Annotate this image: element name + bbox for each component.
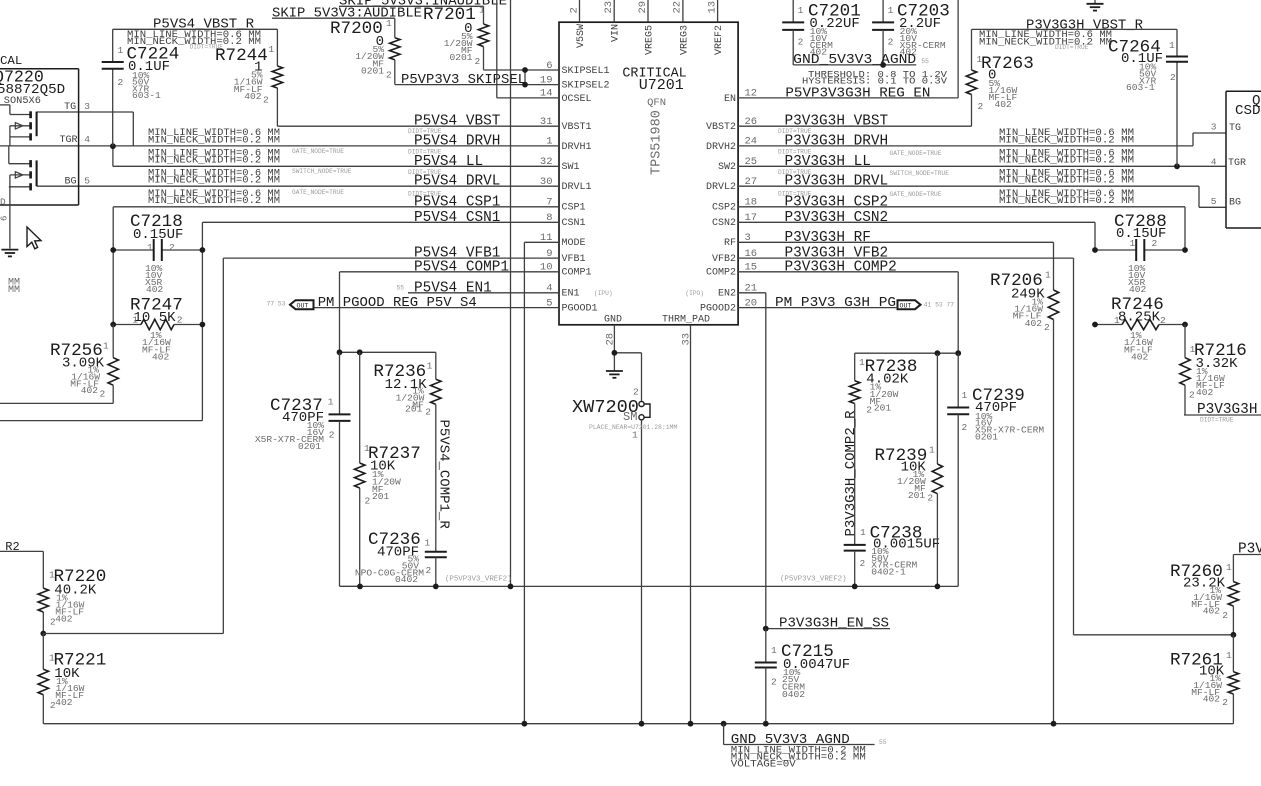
svg-text:P3V3G3H_RF: P3V3G3H_RF: [785, 230, 871, 246]
wire CSN1 branch down: [0, 250, 202, 421]
capacitor C7201: [782, 0, 861, 65]
svg-text:PGOOD2: PGOOD2: [700, 304, 736, 315]
svg-text:2: 2: [1222, 697, 1228, 708]
svg-text:GATE_NODE=TRUE: GATE_NODE=TRUE: [292, 148, 344, 155]
wire COMP2 block top: [855, 352, 959, 354]
svg-text:402: 402: [1131, 352, 1149, 363]
svg-text:402: 402: [152, 352, 170, 363]
Q7220 source pin 6 wire: [0, 205, 10, 249]
capacitor C7203: [872, 0, 950, 65]
didt attributes right: [778, 128, 812, 198]
junction R7246 left: [1092, 322, 1098, 328]
svg-text:1: 1: [49, 653, 55, 664]
CSD pin TG: [1211, 122, 1241, 135]
svg-text:VBST2: VBST2: [706, 122, 736, 133]
junction R7247 right: [200, 322, 206, 328]
svg-text:MIN_NECK_WIDTH=0.2 MM: MIN_NECK_WIDTH=0.2 MM: [999, 134, 1134, 145]
svg-text:55: 55: [879, 739, 887, 746]
svg-text:COMP1: COMP1: [562, 268, 592, 279]
junction skipsel2: [522, 82, 528, 88]
svg-text:PM P3V3 G3H PG: PM P3V3 G3H PG: [775, 295, 896, 311]
svg-text:201: 201: [908, 490, 926, 501]
svg-text:2: 2: [100, 389, 106, 400]
svg-text:2: 2: [888, 37, 894, 48]
svg-text:2: 2: [771, 677, 777, 688]
resistor R7236: [373, 352, 441, 417]
svg-text:2: 2: [329, 430, 335, 441]
svg-text:402: 402: [81, 385, 99, 396]
svg-text:1: 1: [269, 44, 275, 55]
svg-text:BG: BG: [64, 177, 76, 188]
wire CSP1 branch down: [112, 250, 114, 325]
capacitor C7224: [102, 45, 180, 101]
junction gnd28: [612, 350, 618, 356]
resistor R7247: [113, 296, 202, 363]
svg-text:402: 402: [244, 91, 262, 102]
svg-text:2: 2: [386, 69, 392, 80]
svg-text:22: 22: [672, 1, 684, 14]
svg-text:2: 2: [798, 37, 804, 48]
svg-text:SWITCH_NODE=TRUE: SWITCH_NODE=TRUE: [890, 170, 950, 177]
off-page flag OUT right: [898, 300, 955, 309]
svg-text:COMP2: COMP2: [706, 268, 736, 279]
svg-text:VREG5: VREG5: [644, 25, 655, 55]
svg-text:1: 1: [929, 444, 935, 455]
Q7220 pin BG: [64, 176, 90, 188]
wire P5VS4_COMP1: [340, 272, 560, 353]
svg-text:P3V3G3H_LL: P3V3G3H_LL: [785, 154, 871, 170]
wire SKIPSEL1: [484, 69, 560, 71]
svg-text:402: 402: [1203, 606, 1221, 617]
wire TG jog: [37, 112, 134, 146]
svg-text:1: 1: [147, 242, 153, 253]
resistor R7216: [1180, 325, 1247, 416]
gate node attributes right: [890, 150, 950, 198]
svg-text:P5VS4_COMP1: P5VS4_COMP1: [414, 259, 509, 275]
svg-text:P3V3G3H_CSN2: P3V3G3H_CSN2: [785, 210, 889, 226]
svg-text:2: 2: [365, 496, 371, 507]
svg-text:1: 1: [977, 54, 983, 65]
mouse cursor: [27, 227, 41, 249]
junction comp1 a: [337, 349, 343, 355]
svg-text:1: 1: [632, 430, 638, 441]
junction comp2 b: [955, 350, 961, 356]
svg-text:201: 201: [874, 403, 892, 414]
wire THRM_PAD: [690, 325, 692, 724]
junction bus 2: [639, 721, 645, 727]
svg-text:2: 2: [169, 242, 175, 253]
svg-text:MIN_NECK_WIDTH=0.2 MM: MIN_NECK_WIDTH=0.2 MM: [148, 155, 280, 166]
svg-text:SW2: SW2: [718, 162, 736, 173]
junction R7260 bottom: [1231, 632, 1237, 638]
svg-text:SWITCH_NODE=TRUE: SWITCH_NODE=TRUE: [292, 168, 352, 175]
svg-text:(IPO): (IPO): [685, 290, 704, 297]
svg-text:3: 3: [84, 101, 90, 112]
op-amp U7201 TPS51980 controller IC: [559, 22, 738, 325]
wire P5VS4_DRVL (BG): [37, 185, 559, 187]
wire P5VS4_VBST: [277, 125, 559, 127]
svg-text:OUT: OUT: [297, 302, 309, 309]
resistor R7263: [966, 54, 1033, 112]
svg-text:(IPU): (IPU): [594, 290, 613, 297]
svg-text:DRVH2: DRVH2: [706, 142, 736, 153]
svg-text:CSN1: CSN1: [562, 218, 586, 229]
net label GND_5V3V3_AGND top: [793, 52, 929, 68]
min width notes right rows: [999, 127, 1134, 206]
wire P3V3G3H_VBST: [738, 125, 972, 127]
svg-text:DRVL2: DRVL2: [706, 182, 736, 193]
svg-text:1: 1: [386, 18, 392, 29]
capacitor C7218: [113, 212, 202, 295]
svg-text:2: 2: [475, 56, 481, 67]
wire P3V3G3H_CSN2: [738, 222, 1095, 250]
junction bus 3: [688, 721, 694, 727]
svg-text:402: 402: [55, 697, 73, 708]
jumper XW7200: [572, 353, 677, 724]
svg-text:0402-1: 0402-1: [871, 566, 906, 577]
svg-text:EN1: EN1: [562, 289, 580, 300]
svg-text:TGR: TGR: [1228, 158, 1246, 169]
svg-text:1: 1: [1226, 562, 1232, 573]
svg-text:4: 4: [1211, 157, 1217, 168]
svg-text:402: 402: [1129, 284, 1147, 295]
svg-text:CSP2: CSP2: [712, 203, 736, 214]
net label SKIP_5V3V3:AUDIBLE: [272, 5, 422, 21]
Q7220 pin TG: [64, 101, 90, 113]
svg-text:SKIPSEL2: SKIPSEL2: [562, 81, 610, 92]
min width note vbst_r left: [127, 29, 261, 50]
svg-text:2: 2: [177, 315, 183, 326]
svg-text:55: 55: [397, 284, 405, 291]
svg-text:23: 23: [603, 1, 615, 14]
svg-text:CSN2: CSN2: [712, 218, 736, 229]
junction bottom 1: [357, 584, 363, 590]
resistor R7238: [850, 353, 918, 416]
svg-text:1: 1: [888, 5, 894, 16]
svg-text:DIDT=TRUE: DIDT=TRUE: [778, 128, 812, 135]
svg-text:GATE_NODE=TRUE: GATE_NODE=TRUE: [890, 150, 942, 157]
resistor R7246: [1095, 295, 1185, 363]
svg-text:1: 1: [118, 45, 124, 56]
wire P5VS4_EN1: [408, 292, 559, 294]
junction R7220 bottom: [40, 631, 46, 637]
svg-text:1: 1: [1114, 315, 1120, 326]
svg-text:RF: RF: [724, 238, 736, 249]
wire PM_PGOOD_REG_P5V_S4: [314, 307, 560, 309]
net label SKIP_5V3V3:INAUDIBLE: [339, 0, 507, 9]
svg-text:1: 1: [798, 5, 804, 16]
svg-text:DIDT=TRUE: DIDT=TRUE: [1200, 417, 1234, 424]
svg-text:0201: 0201: [449, 52, 472, 63]
svg-text:0201: 0201: [298, 441, 321, 452]
wire skipsel tie: [524, 70, 526, 85]
wire P5VS4_CSP1: [113, 207, 559, 250]
svg-text:8.25K: 8.25K: [1118, 310, 1161, 326]
svg-text:0201: 0201: [361, 65, 384, 76]
svg-text:2: 2: [866, 405, 872, 416]
capacitor C7236: [355, 404, 447, 586]
resistor R7221: [38, 634, 106, 724]
wire OCSEL: [497, 0, 559, 98]
svg-text:2: 2: [263, 95, 269, 106]
junction EN_SS: [763, 626, 769, 632]
svg-text:1: 1: [1169, 40, 1175, 51]
svg-text:DIDT=TRUE: DIDT=TRUE: [408, 191, 442, 198]
gate node attributes left: [292, 148, 352, 196]
svg-text:0.15UF: 0.15UF: [133, 227, 183, 243]
svg-text:DIDT=TRUE: DIDT=TRUE: [778, 149, 812, 156]
text MM MM: [8, 278, 20, 297]
junction bus 4: [721, 721, 727, 727]
junction bottom 3: [508, 584, 514, 590]
junction R7246 right: [1182, 322, 1188, 328]
junction comp2 a: [935, 350, 941, 356]
U7201 bottom pins GND THRM_PAD: [604, 315, 710, 346]
wire EN2: [738, 293, 766, 627]
svg-text:MODE: MODE: [562, 238, 586, 249]
svg-text:(P5VP3V3_VREF2): (P5VP3V3_VREF2): [445, 576, 512, 584]
wire VFB1 feedback: [43, 633, 223, 635]
svg-text:P5VP3V3G3H_REG_EN: P5VP3V3G3H_REG_EN: [785, 85, 930, 101]
svg-text:41 53 77: 41 53 77: [924, 301, 954, 308]
svg-text:1: 1: [859, 357, 865, 368]
net label P3V3G3H (bottom right): [1184, 402, 1261, 424]
svg-text:402: 402: [146, 284, 164, 295]
resistor R7244: [215, 44, 283, 106]
svg-text:MIN_NECK_WIDTH=0.2 MM: MIN_NECK_WIDTH=0.2 MM: [999, 155, 1134, 166]
wire VFB2 bottom: [1074, 634, 1234, 636]
svg-text:MIN_NECK_WIDTH=0.2 MM: MIN_NECK_WIDTH=0.2 MM: [979, 36, 1112, 47]
min width note vbst_r right: [979, 29, 1112, 51]
wire MODE: [524, 242, 559, 723]
U7201 right pin numbers: [745, 88, 758, 310]
svg-text:HYSTERESIS: 0.1 TO 0.3V: HYSTERESIS: 0.1 TO 0.3V: [802, 76, 947, 87]
svg-text:1: 1: [364, 443, 370, 454]
svg-text:MIN_NECK_WIDTH=0.2 MM: MIN_NECK_WIDTH=0.2 MM: [999, 195, 1134, 206]
wire P3V3G3H_DRVL: [738, 186, 1226, 207]
svg-text:P5VS4_COMP1_R: P5VS4_COMP1_R: [436, 420, 452, 530]
min width notes left rows: [148, 127, 280, 206]
transistor Q CSD (clipped): [1226, 91, 1261, 228]
svg-text:CAL: CAL: [0, 54, 22, 68]
svg-text:2: 2: [978, 101, 984, 112]
svg-text:GATE_NODE=TRUE: GATE_NODE=TRUE: [890, 191, 942, 198]
svg-text:DIDT=TRUE: DIDT=TRUE: [778, 169, 812, 176]
svg-text:DRVH1: DRVH1: [562, 142, 592, 153]
svg-text:3: 3: [1211, 122, 1217, 133]
resistor R7260: [1170, 562, 1239, 635]
svg-text:2: 2: [1160, 315, 1166, 326]
wire GND_5V3V3_AGND bus: [43, 723, 1233, 725]
svg-text:2: 2: [50, 617, 56, 628]
svg-text:55: 55: [921, 58, 929, 65]
svg-text:P5VS4_DRVH: P5VS4_DRVH: [414, 133, 500, 149]
wire P3V3G3H_CSP2: [738, 207, 1185, 250]
svg-text:EN: EN: [724, 94, 736, 105]
wire P3V3G3H_COMP2: [738, 272, 958, 353]
junction bus 1: [522, 721, 528, 727]
svg-text:(P5VP3V3_VREF2): (P5VP3V3_VREF2): [780, 576, 847, 584]
ground top right: [1087, 0, 1104, 11]
svg-text:2: 2: [962, 422, 968, 433]
svg-text:1: 1: [962, 390, 968, 401]
wire COMP1 block top: [340, 351, 436, 353]
svg-text:0402: 0402: [395, 574, 418, 585]
svg-text:0.15UF: 0.15UF: [1116, 226, 1166, 242]
svg-text:VFB2: VFB2: [712, 254, 736, 265]
off-page flag OUT left: [267, 300, 314, 309]
wire RF down to bus: [1053, 320, 1055, 724]
wire comp block bottom: [340, 585, 959, 587]
svg-text:1: 1: [1045, 270, 1051, 281]
svg-text:1: 1: [427, 361, 433, 372]
wire P3V3G3H_DRVH: [738, 133, 1226, 146]
svg-text:13: 13: [706, 1, 718, 14]
wire P3V3G3H_VFB2: [738, 258, 1074, 635]
svg-text:DIDT=TRUE: DIDT=TRUE: [408, 149, 442, 156]
junction bottom 5: [935, 584, 941, 590]
net label R2: [0, 540, 43, 588]
capacitor C7264: [1108, 38, 1188, 93]
svg-text:MIN_NECK_WIDTH=0.2 MM: MIN_NECK_WIDTH=0.2 MM: [148, 195, 280, 206]
junction comp1 b: [357, 349, 363, 355]
svg-text:P3V3G3H_COMP2: P3V3G3H_COMP2: [785, 259, 897, 275]
svg-text:29: 29: [637, 1, 649, 14]
svg-text:201: 201: [372, 491, 390, 502]
svg-text:1: 1: [1190, 344, 1196, 355]
junction LL C7264: [1174, 163, 1180, 169]
svg-text:TPS51980: TPS51980: [650, 110, 665, 175]
svg-text:4: 4: [84, 134, 90, 145]
svg-text:201: 201: [405, 404, 423, 415]
junction C7218 left: [110, 247, 116, 253]
junction bus 5: [763, 721, 769, 727]
ground Q7220: [1, 249, 18, 251]
didt attributes left: [408, 128, 442, 198]
svg-text:D: D: [0, 197, 6, 208]
wire P5VS4_VFB1: [223, 258, 559, 633]
transistor Q7220: [0, 54, 79, 205]
svg-text:DIDT=TRUE: DIDT=TRUE: [408, 169, 442, 176]
svg-text:2: 2: [1222, 610, 1228, 621]
resistor R7206: [990, 270, 1059, 334]
svg-text:10.5K: 10.5K: [134, 310, 177, 326]
svg-text:P5VS4_LL: P5VS4_LL: [414, 154, 483, 170]
wire P3V3G3H_VBST_R: [972, 29, 1178, 166]
svg-text:VBST1: VBST1: [562, 122, 592, 133]
svg-text:MIN_NECK_WIDTH=0.2 MM: MIN_NECK_WIDTH=0.2 MM: [999, 175, 1134, 186]
junction bottom 4: [852, 584, 858, 590]
svg-text:1: 1: [49, 569, 55, 580]
capacitor C7237: [255, 352, 360, 586]
wire PGOOD2: [738, 307, 898, 309]
wire P5VP3V3G3H_REG_EN: [738, 0, 958, 98]
svg-text:402: 402: [1025, 318, 1043, 329]
svg-text:TG: TG: [1229, 123, 1241, 134]
junction bus 6: [1051, 721, 1057, 727]
resistor R7261: [1170, 635, 1239, 724]
svg-text:VOLTAGE=0V: VOLTAGE=0V: [731, 758, 796, 769]
svg-text:VREG3: VREG3: [679, 25, 690, 55]
net label P3V3G3H_EN_SS: [766, 616, 890, 632]
svg-text:PGOOD1: PGOOD1: [562, 304, 598, 315]
svg-text:U7201: U7201: [639, 77, 684, 94]
svg-text:1: 1: [860, 527, 866, 538]
wire vertical x511: [510, 0, 512, 586]
net label P3V (top of R7260): [1233, 542, 1261, 582]
svg-text:CSP1: CSP1: [562, 203, 586, 214]
svg-text:MIN_NECK_WIDTH=0.2 MM: MIN_NECK_WIDTH=0.2 MM: [148, 175, 280, 186]
U7201 left pin numbers: [540, 60, 553, 310]
svg-text:MM: MM: [8, 285, 20, 296]
svg-text:1: 1: [479, 4, 485, 15]
junction C7288 left: [1092, 247, 1098, 253]
svg-text:2: 2: [860, 558, 866, 569]
svg-text:2: 2: [1170, 72, 1176, 83]
svg-text:2: 2: [426, 565, 432, 576]
svg-text:OUT: OUT: [900, 302, 912, 309]
svg-text:DRVL1: DRVL1: [562, 182, 592, 193]
wire P5VS4_DRVH (TG rail): [0, 145, 559, 147]
svg-text:DIDT=TRUE: DIDT=TRUE: [778, 191, 812, 198]
svg-text:THRM_PAD: THRM_PAD: [662, 315, 710, 326]
svg-text:P5VP3V3 SKIPSEL: P5VP3V3 SKIPSEL: [401, 72, 526, 88]
junction skipsel1: [522, 67, 528, 73]
junction C7218 right: [200, 247, 206, 253]
resistor R7201: [423, 4, 489, 69]
svg-text:2: 2: [1189, 390, 1195, 401]
wire P5VS4_VBST_R top: [113, 29, 278, 146]
svg-text:1: 1: [328, 397, 334, 408]
Q7220 upper MOSFET: [0, 105, 37, 146]
svg-text:SW1: SW1: [562, 162, 580, 173]
svg-text:402: 402: [55, 613, 73, 624]
U7201 top pins V5SW VIN VREG5 VREG3 VREF2: [568, 0, 725, 55]
svg-text:6: 6: [0, 216, 10, 221]
svg-text:2: 2: [927, 492, 933, 503]
Q7220 lower MOSFET: [9, 146, 37, 205]
svg-text:1: 1: [1130, 238, 1136, 249]
wire P5VS4_LL: [113, 146, 559, 166]
svg-text:P3V3G3H_COMP2_R: P3V3G3H_COMP2_R: [843, 410, 859, 537]
capacitor C7215: [755, 629, 850, 724]
svg-text:1: 1: [1226, 650, 1232, 661]
svg-text:EN2: EN2: [718, 289, 736, 300]
svg-text:SM: SM: [623, 410, 637, 424]
svg-text:P5VS4_EN1: P5VS4_EN1: [414, 280, 492, 296]
capacitor C7288: [1095, 212, 1185, 295]
svg-text:1: 1: [103, 341, 109, 352]
svg-text:DIDT=TRUE: DIDT=TRUE: [408, 128, 442, 135]
svg-text:5: 5: [1211, 196, 1217, 207]
capacitor C7239: [947, 353, 1044, 586]
svg-text:2: 2: [1044, 322, 1050, 333]
svg-text:77 53: 77 53: [267, 301, 286, 308]
svg-text:OCSEL: OCSEL: [562, 94, 592, 105]
wire P5VS4_CSN1: [202, 222, 559, 250]
resistor R7239: [875, 353, 943, 586]
wire P3V3G3H_RF: [738, 242, 1054, 290]
net label GND_5V3V3_AGND bottom: [724, 724, 887, 770]
resistor R7256: [0, 325, 118, 404]
ground U7201 GND: [606, 370, 623, 372]
U7201 right pin names: [685, 94, 736, 315]
wire GND pin28: [614, 325, 641, 371]
svg-text:MIN_NECK_WIDTH=0.2 MM: MIN_NECK_WIDTH=0.2 MM: [148, 134, 280, 145]
svg-text:0201: 0201: [975, 431, 998, 442]
svg-text:V5SW: V5SW: [576, 24, 587, 48]
resistor R7237: [355, 352, 421, 586]
